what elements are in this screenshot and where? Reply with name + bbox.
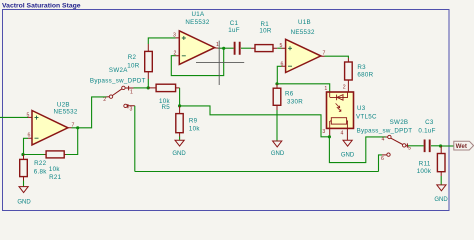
wire node to R21 left	[23, 154, 45, 156]
junction U3 pin3	[328, 135, 331, 138]
svg-text:Wet: Wet	[456, 143, 467, 150]
svg-text:VTL5C: VTL5C	[356, 113, 377, 120]
wire R5 node to U3 pin3 node	[180, 106, 330, 137]
wire SW2A pin1 to R2 node	[134, 87, 149, 89]
svg-text:U1A: U1A	[192, 11, 206, 18]
wire node to U3 pin1	[277, 84, 330, 92]
svg-text:R11: R11	[419, 161, 431, 168]
resistor R22	[20, 155, 48, 181]
svg-text:U1B: U1B	[298, 19, 311, 26]
svg-text:6: 6	[28, 133, 31, 139]
svg-text:Bypass_sw_DPDT: Bypass_sw_DPDT	[357, 128, 413, 135]
wire U1A output to C1	[218, 47, 233, 49]
resistor R5	[148, 84, 179, 111]
svg-text:2: 2	[343, 84, 346, 90]
op-amp U2B	[27, 102, 78, 145]
svg-text:R5: R5	[162, 104, 171, 111]
svg-text:GND: GND	[341, 152, 355, 158]
svg-text:4: 4	[341, 131, 344, 137]
wire U2B pin6 to R22/R21 node	[24, 138, 29, 154]
svg-text:10R: 10R	[127, 62, 139, 69]
junction C3/R11/Wet	[439, 144, 442, 147]
resistor R2	[127, 44, 152, 79]
resistor R1	[251, 21, 277, 51]
junction node R22/R21/U2B-6	[21, 153, 24, 156]
capacitor C1	[228, 20, 240, 55]
wire R1 to U1B pin5	[277, 47, 281, 49]
svg-text:NE5532: NE5532	[54, 108, 78, 115]
svg-text:330R: 330R	[287, 98, 303, 105]
wire C3 to node	[431, 145, 441, 147]
svg-text:7: 7	[323, 50, 326, 56]
switch SW2A	[90, 67, 146, 113]
svg-text:NE5532: NE5532	[185, 19, 209, 26]
switch SW2B	[357, 119, 436, 162]
junction R6/U1B-6/U3-1	[275, 82, 278, 85]
svg-text:6: 6	[381, 156, 384, 162]
svg-text:1: 1	[216, 42, 219, 48]
wire U1A feedback loop	[171, 48, 223, 75]
svg-text:3: 3	[322, 129, 325, 135]
ground at R6	[271, 141, 285, 157]
junction U2B output	[76, 126, 79, 129]
wire U3 pin3 to SW2B pin4	[329, 137, 385, 163]
svg-text:NE5532: NE5532	[291, 29, 315, 36]
ground at R9	[172, 137, 186, 158]
junction R2/SW2A/R5	[147, 86, 150, 89]
wire SW2B pin6 to bypass rail	[379, 155, 383, 172]
junction R5/R9	[178, 104, 181, 107]
svg-text:GND: GND	[434, 197, 448, 203]
resistor R3	[345, 58, 374, 92]
svg-text:2: 2	[103, 97, 106, 103]
wire R6 to ground	[276, 110, 278, 141]
wire bypass rail	[135, 171, 379, 173]
svg-text:GND: GND	[17, 200, 31, 206]
svg-text:Vactrol Saturation Stage: Vactrol Saturation Stage	[2, 3, 81, 10]
svg-text:0.1uF: 0.1uF	[418, 128, 435, 135]
capacitor C3	[425, 140, 430, 153]
svg-text:100k: 100k	[417, 168, 432, 175]
svg-text:5: 5	[280, 43, 283, 49]
svg-text:C3: C3	[425, 119, 434, 126]
junction U1A output	[222, 47, 225, 50]
svg-text:1uF: 1uF	[228, 27, 240, 34]
ground at U3 pin4	[341, 128, 355, 158]
resistor R9	[176, 106, 201, 137]
svg-text:3: 3	[173, 33, 176, 39]
wire SW2A pin3 down	[134, 106, 136, 172]
svg-text:3: 3	[130, 106, 133, 112]
global label Wet	[454, 141, 474, 150]
svg-text:GND: GND	[271, 151, 285, 157]
svg-text:R2: R2	[128, 54, 137, 61]
wire node to Wet label	[441, 145, 454, 147]
resistor R11	[417, 146, 445, 176]
svg-text:R9: R9	[189, 118, 198, 125]
wire C1 to R1	[241, 47, 251, 49]
wire input to U2B pin5	[0, 116, 28, 118]
svg-text:SW2B: SW2B	[390, 119, 409, 126]
svg-text:GND: GND	[172, 151, 186, 157]
cursor crosshair	[196, 41, 244, 85]
wire R5 to R9 node	[179, 88, 181, 106]
svg-text:6.8k: 6.8k	[34, 169, 48, 176]
svg-text:R22: R22	[34, 160, 47, 167]
svg-text:5: 5	[27, 112, 30, 118]
vactrol U3	[322, 84, 377, 136]
ground at R22	[17, 181, 31, 206]
op-amp U1A	[173, 11, 219, 65]
svg-text:1: 1	[130, 90, 133, 96]
svg-text:680R: 680R	[357, 72, 373, 79]
op-amp U1B	[280, 19, 326, 73]
wire U2B output net	[72, 97, 107, 128]
svg-text:1: 1	[324, 86, 327, 92]
svg-text:4: 4	[382, 137, 385, 143]
svg-text:SW2A: SW2A	[109, 67, 128, 74]
resistor R21	[45, 151, 67, 181]
wire U3 pin3	[329, 128, 331, 136]
wire U1B output to R3	[325, 56, 349, 58]
svg-text:10k: 10k	[49, 166, 60, 173]
resistor R6	[273, 84, 303, 110]
ground at R11	[434, 176, 448, 203]
svg-text:U3: U3	[357, 105, 366, 112]
svg-text:5: 5	[408, 146, 411, 152]
wire R2 to U1A pin3	[148, 38, 175, 88]
svg-text:R6: R6	[285, 91, 294, 98]
wire R21 right to U2B output	[66, 128, 78, 155]
svg-text:C1: C1	[230, 20, 239, 27]
svg-text:10R: 10R	[259, 27, 271, 34]
svg-text:10k: 10k	[189, 125, 200, 132]
svg-text:R3: R3	[357, 64, 366, 71]
wire U1B pin6 to R6 node	[277, 66, 281, 84]
svg-text:R21: R21	[49, 174, 62, 181]
wire SW2B pin5 to C3	[408, 145, 424, 147]
svg-text:Bypass_sw_DPDT: Bypass_sw_DPDT	[90, 77, 146, 84]
